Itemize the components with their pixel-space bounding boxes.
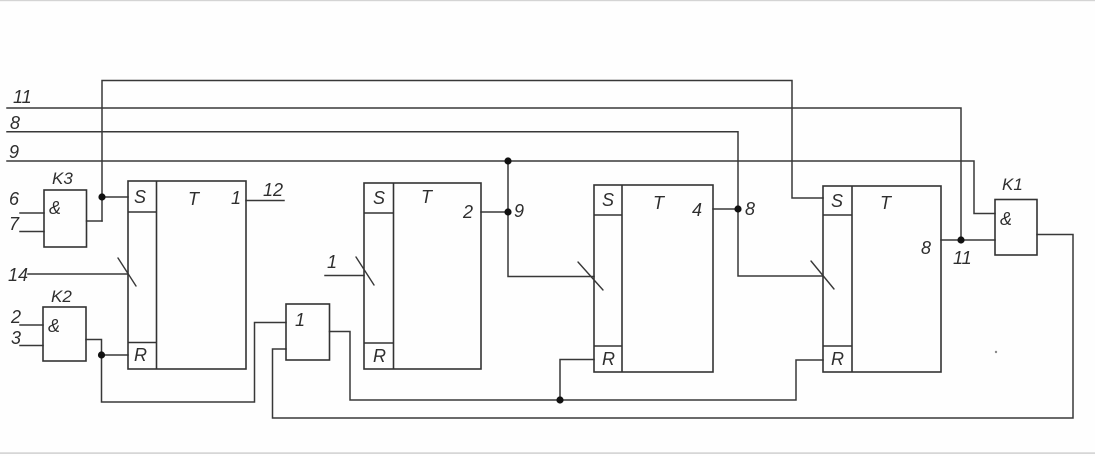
svg-text:&: &	[48, 316, 60, 336]
svg-text:4: 4	[692, 200, 702, 220]
svg-text:7: 7	[9, 214, 20, 234]
svg-text:K2: K2	[51, 287, 72, 306]
flip-flop U4 outer box	[823, 186, 941, 372]
scan border top	[0, 0, 1095, 1]
svg-text:8: 8	[921, 238, 931, 258]
svg-text:8: 8	[10, 113, 20, 133]
junction dot: K2 out / FF1 R	[98, 351, 105, 358]
junction dot: bus 9 tap	[504, 157, 511, 164]
svg-text:8: 8	[745, 199, 755, 219]
FF2 dynamic input slash	[356, 257, 374, 285]
svg-text:11: 11	[953, 248, 972, 268]
wire: K1 output feedback down, bottom rail, up to inverter input 2	[273, 235, 1074, 419]
junction dot: reset rail / FF3 R	[556, 396, 563, 403]
wire: node 9 vertical drop to FF3 C	[508, 161, 594, 277]
svg-text:K3: K3	[52, 169, 73, 188]
wire: input 6	[20, 212, 44, 214]
wire: bus 9 (y160, right end drops to K1 input 1)	[7, 161, 995, 214]
wire: K2 output down to FF1 R junction and lower rail	[86, 323, 286, 403]
op-amp K2 AND gate box	[43, 307, 86, 361]
flip-flop U1 inner column	[156, 181, 158, 369]
junction dot: node 9	[504, 208, 511, 215]
wire: bus 8 (y131.7, right end drops to node 8)	[7, 132, 738, 209]
wire: FF1 output 12	[246, 200, 284, 202]
wire: input 14 to FF1 C	[28, 273, 128, 275]
wire: FF1 S input from junction	[102, 196, 128, 198]
svg-text:1: 1	[295, 310, 305, 330]
svg-text:S: S	[831, 191, 843, 211]
svg-text:1: 1	[327, 252, 337, 272]
FF1 dynamic input slash	[118, 258, 136, 286]
wire: FF2 output to node 9	[481, 211, 508, 213]
svg-text:R: R	[134, 345, 147, 365]
wire: bus 11 (y107, right end drops to node 11)	[7, 108, 961, 240]
FF3 dynamic input slash	[578, 262, 603, 290]
svg-text:S: S	[134, 187, 146, 207]
wire: input 7	[20, 231, 44, 233]
svg-text:R: R	[831, 349, 844, 369]
wire: FF3 output to node 8	[713, 208, 738, 210]
wire: FF1 R input from junction	[102, 354, 129, 356]
scan border bottom	[0, 452, 1095, 453]
svg-text:11: 11	[13, 87, 32, 107]
junction dot: node 11	[957, 236, 964, 243]
svg-text:S: S	[602, 190, 614, 210]
svg-text:2: 2	[462, 202, 473, 222]
svg-text:6: 6	[9, 189, 20, 209]
svg-text:9: 9	[9, 142, 19, 162]
flip-flop U3 inner column	[621, 185, 623, 372]
wire: input 2	[20, 324, 43, 326]
flip-flop U1 outer box	[128, 181, 246, 369]
wire: node 8 vertical drop to FF4 C	[738, 209, 823, 276]
op-amp K3 AND gate box	[44, 190, 87, 247]
svg-text:9: 9	[514, 201, 524, 221]
svg-text:2: 2	[10, 307, 21, 327]
svg-text:1: 1	[231, 188, 241, 208]
svg-text:&: &	[1000, 209, 1012, 229]
wire: input 1 to FF2 C	[325, 275, 364, 277]
stray speck	[995, 351, 997, 353]
wire: FF4 output to K1 input 2	[941, 239, 995, 241]
wire: input 3	[20, 345, 43, 347]
op-amp K1 AND gate box	[995, 200, 1037, 256]
wire: K3 output to FF1 S	[87, 220, 103, 222]
inverter block 1 box	[286, 304, 330, 360]
svg-text:&: &	[49, 198, 61, 218]
svg-text:12: 12	[263, 180, 283, 200]
svg-text:S: S	[373, 188, 385, 208]
svg-text:R: R	[373, 346, 386, 366]
svg-text:R: R	[602, 349, 615, 369]
wire: reset rail branch up to FF3 R	[560, 360, 594, 401]
wire: top feedback bus (x102 to x792 at y80.5, down to FF4 S)	[102, 81, 823, 222]
svg-text:K1: K1	[1002, 175, 1023, 194]
flip-flop U2 inner column	[393, 183, 395, 369]
svg-text:14: 14	[8, 265, 28, 285]
svg-text:3: 3	[11, 328, 21, 348]
FF4 dynamic input slash	[811, 261, 834, 289]
junction dot: K3 out / FF1 S	[98, 193, 105, 200]
flip-flop U2 outer box	[364, 183, 481, 369]
wire: inverter output down to reset rail, up to FF4 R	[330, 332, 824, 401]
flip-flop U4 inner column	[851, 186, 853, 372]
flip-flop U3 outer box	[594, 185, 713, 372]
junction dot: node 8	[734, 205, 741, 212]
